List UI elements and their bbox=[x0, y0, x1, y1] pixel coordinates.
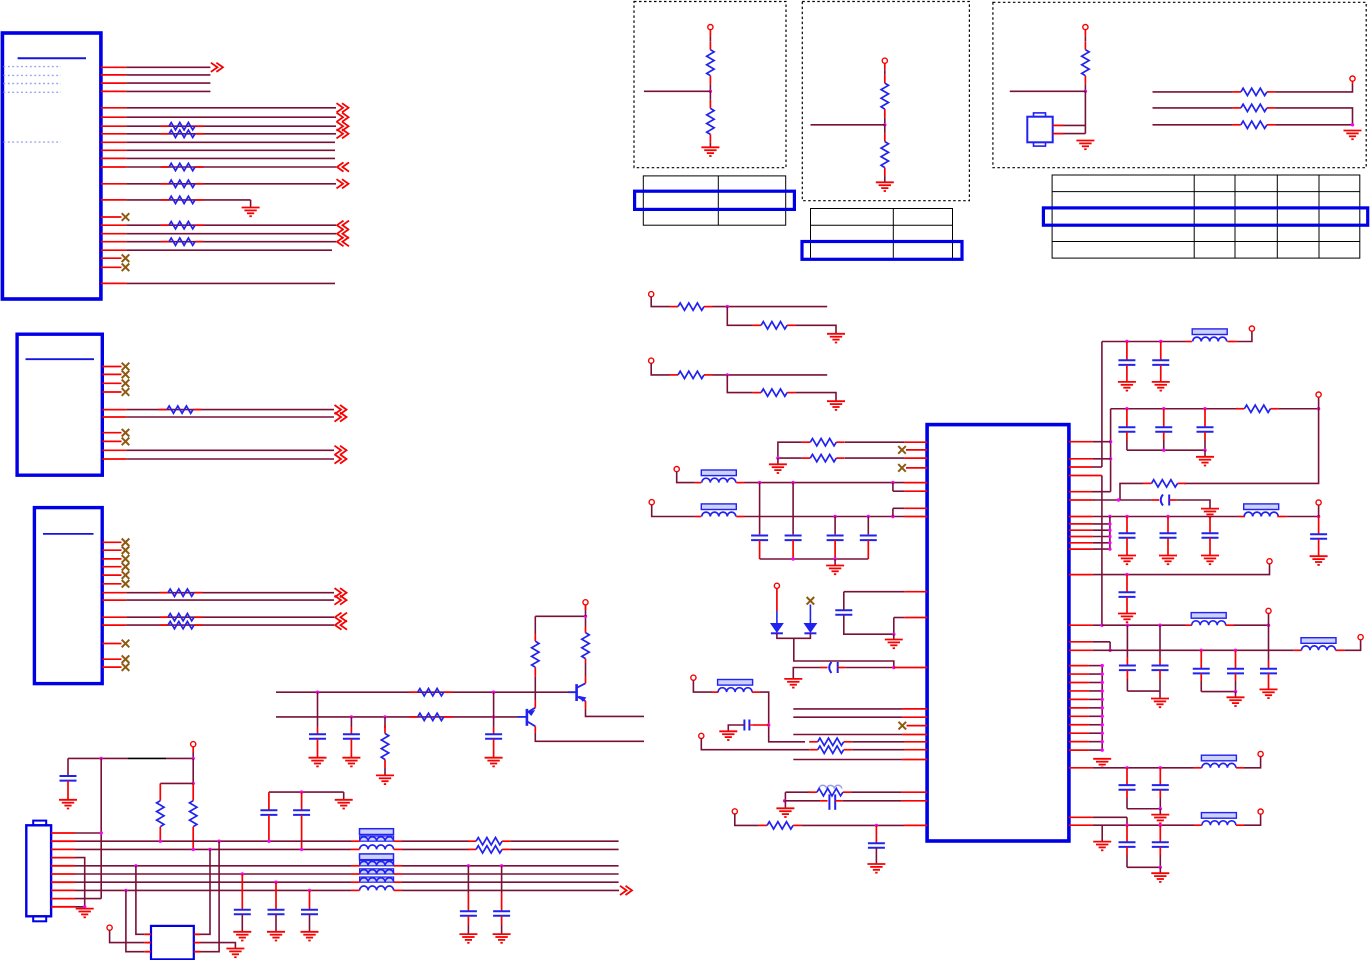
capacitor C50 bbox=[1152, 825, 1169, 847]
resistor R81 bbox=[802, 439, 845, 446]
wire R43 to ground bbox=[384, 768, 386, 775]
wire AVD2 drop bbox=[652, 505, 695, 517]
inductor L24 bbox=[1301, 638, 1336, 651]
red lead bbox=[1336, 649, 1345, 651]
wire gnd tap bbox=[1101, 825, 1103, 841]
red lead bbox=[585, 626, 587, 633]
connector block J3 bbox=[34, 508, 102, 684]
pin J4 row 2 bbox=[51, 840, 75, 842]
resistor R91 bbox=[1236, 405, 1279, 412]
junction VDD2/terminal bbox=[1317, 407, 1320, 410]
wire VDD4 rail bbox=[1102, 624, 1186, 626]
wire L24 out bbox=[1345, 640, 1361, 651]
no-connect X J2 row 2 bbox=[122, 371, 130, 379]
red lead bbox=[351, 840, 360, 842]
no-connect X J3 row 2 bbox=[122, 546, 130, 554]
wire M2 tail bbox=[796, 393, 836, 402]
wire VDD3 rail bbox=[1110, 516, 1239, 518]
pin U1 VDD7 bbox=[1069, 824, 1194, 826]
red stub bbox=[1084, 30, 1086, 37]
resistor R42 on bus B bbox=[409, 713, 452, 720]
red lead bbox=[159, 827, 161, 842]
resistor R18 bbox=[161, 180, 204, 187]
pin U1 right y475.5 bbox=[1069, 475, 1102, 477]
pin J4 row 6 bbox=[51, 873, 75, 875]
junction cluster bbox=[1108, 535, 1111, 538]
junction VDD6/C47 bbox=[1125, 766, 1128, 769]
wire AVD1 drop bbox=[677, 472, 695, 483]
pin Y1 left1 bbox=[144, 933, 151, 935]
wire U1 bus pin y708.9 bbox=[793, 708, 927, 710]
terminal PWR1 bbox=[1249, 326, 1254, 331]
dashed box region 2 bbox=[802, 2, 969, 201]
pin U1 cluster y536.5 bbox=[1069, 536, 1110, 538]
inductor L5 row5 bbox=[360, 861, 394, 866]
red lead bbox=[1226, 624, 1234, 626]
junction row2/C11 bbox=[267, 840, 270, 843]
wire J1 pin row 6 bbox=[101, 113, 349, 122]
wire T3 to R65 bbox=[1084, 37, 1086, 42]
wire C1 drop bbox=[317, 692, 319, 727]
capacitor C21 bbox=[751, 536, 768, 541]
inductor L13 bbox=[718, 680, 753, 693]
wire C23 bottom bbox=[834, 540, 836, 559]
wire R83 to pin bbox=[852, 741, 904, 743]
junction row8/vert bbox=[124, 889, 127, 892]
wire R64 to ground bbox=[884, 176, 886, 182]
junction gnd bus bbox=[1101, 689, 1104, 692]
pin U1 VDD6 bbox=[1069, 767, 1110, 769]
no-connect pin J2 row 8 bbox=[102, 440, 121, 442]
inductor L23 bbox=[1191, 613, 1226, 626]
junction rail7 bbox=[1159, 866, 1162, 869]
wire row8 bbox=[75, 889, 351, 891]
wire C16 to ground bbox=[467, 925, 469, 934]
resistor R32 bbox=[160, 614, 203, 621]
wire vert row8 to osc L3 bbox=[126, 890, 144, 951]
resistor R43 bbox=[381, 725, 388, 768]
junction cluster bbox=[1108, 522, 1111, 525]
pin U1 cluster y530.2 bbox=[1069, 529, 1110, 531]
capacitor C49 bbox=[1119, 825, 1136, 847]
wire V2 vertical bbox=[1110, 409, 1112, 492]
wire to ground bbox=[784, 801, 786, 809]
wire L12 out bbox=[745, 516, 905, 518]
wire cap C26 gnd stub bbox=[793, 668, 820, 679]
junction row6/C13 bbox=[241, 872, 244, 875]
pin U1 XFI bbox=[1069, 499, 1095, 501]
inductor L7 row7 bbox=[360, 877, 394, 882]
terminal M4 bbox=[732, 809, 737, 814]
wire C13 drop bbox=[241, 874, 243, 910]
wire VDDA rail bbox=[1095, 564, 1270, 575]
wire osc R2 to ground bbox=[201, 943, 236, 949]
wire C35 stub bbox=[1204, 432, 1206, 440]
wire V1 to pin bbox=[1092, 466, 1102, 468]
wire C11 bottom bbox=[268, 815, 270, 841]
connector J4 top tab bbox=[33, 821, 46, 826]
wire row3 end bbox=[511, 848, 619, 850]
red lead bbox=[159, 783, 161, 800]
inductor L25 bbox=[1201, 755, 1236, 768]
wire M1 tail bbox=[796, 325, 836, 334]
terminal T2 bbox=[882, 58, 887, 63]
pin U1 AVD pair1 bbox=[893, 490, 927, 492]
capacitor C43 bbox=[1152, 657, 1169, 670]
ground bbox=[335, 800, 353, 809]
pin J4 row 9 bbox=[51, 898, 75, 900]
pin U1 AVD pair2 bbox=[893, 507, 927, 509]
wire rail to ground bbox=[343, 792, 345, 800]
junction rail5 bbox=[1234, 690, 1237, 693]
capacitor C15 bbox=[301, 910, 318, 915]
resistor R17 bbox=[161, 163, 204, 170]
pin U1 gnd cluster 3 bbox=[1069, 682, 1102, 684]
ground bbox=[1227, 697, 1245, 706]
red lead bbox=[736, 516, 744, 518]
no-connect X J3 row 13 bbox=[122, 663, 130, 671]
inductor L3 row3 bbox=[360, 845, 394, 849]
pin U1 pair7a bbox=[1069, 816, 1127, 818]
ground bbox=[827, 401, 845, 410]
wire C16 drop bbox=[467, 866, 469, 893]
red stub bbox=[776, 588, 778, 611]
ground bbox=[376, 775, 394, 784]
pin U1 gnd cluster 11 bbox=[1069, 749, 1102, 751]
pin U1 RXTN bbox=[845, 441, 927, 443]
junction VDD5/C46 bbox=[1234, 649, 1237, 652]
wire L23 out bbox=[1234, 624, 1269, 626]
wire row3 bbox=[75, 848, 351, 850]
ground bbox=[1201, 509, 1219, 518]
wire node to R62 bbox=[709, 91, 711, 100]
pin U1 AGND bbox=[894, 617, 927, 619]
wire net C right bbox=[1275, 124, 1352, 126]
wire C17 drop bbox=[501, 866, 503, 893]
wire C17 lead2 bbox=[501, 916, 503, 925]
block J1 dashed row line 4 bbox=[4, 91, 62, 93]
ground bbox=[1151, 873, 1169, 882]
red lead bbox=[394, 848, 402, 850]
capacitor C2 bbox=[342, 727, 360, 766]
junction bus B / R43 bbox=[383, 715, 386, 718]
wire net C bbox=[1153, 124, 1233, 126]
ground bbox=[826, 566, 844, 575]
red lead bbox=[838, 667, 846, 669]
resistor R52 bbox=[190, 801, 197, 827]
pin U1 gnd cluster 1 bbox=[1069, 665, 1102, 667]
wire C47 tail bbox=[1126, 790, 1128, 798]
wire loop vertical bbox=[1184, 409, 1319, 484]
wire C34 stub bbox=[1163, 432, 1165, 440]
no-connect pin J2 row 1 bbox=[102, 366, 121, 368]
wire divider top rail bbox=[160, 782, 193, 784]
wire row5 right bbox=[402, 865, 619, 867]
red lead bbox=[534, 667, 536, 676]
red lead bbox=[736, 482, 744, 484]
ground bbox=[867, 864, 885, 873]
wire C12 bottom bbox=[301, 815, 303, 850]
block J1 dashed row line 2 bbox=[4, 74, 62, 76]
junction cap rail bbox=[300, 790, 303, 793]
wire C29 lead bbox=[875, 825, 877, 843]
no-connect pin J2 row 4 bbox=[102, 391, 121, 393]
connector block J1 bbox=[2, 33, 101, 299]
wire XO to pin bbox=[851, 791, 901, 793]
wire C3 drop bbox=[493, 692, 495, 727]
red lead bbox=[1294, 649, 1302, 651]
capacitor C37 bbox=[1118, 517, 1136, 565]
no-connect pin J3 row 3 bbox=[102, 558, 121, 560]
wire J2 row 9 bbox=[102, 446, 346, 455]
capacitor C36 polarized bbox=[1161, 495, 1169, 506]
wire XO net bbox=[785, 791, 810, 793]
block J1 title underline bbox=[18, 57, 86, 59]
junction VDD1/C31 bbox=[1125, 340, 1128, 343]
wire C11 lead bbox=[268, 792, 270, 810]
red lead bbox=[695, 516, 701, 518]
wire net A right bbox=[1275, 84, 1352, 92]
wire D2 feed bbox=[809, 605, 811, 624]
resistor R31 bbox=[160, 589, 203, 596]
block J1 dashed row line 5 bbox=[4, 141, 62, 143]
wire R91 out bbox=[1279, 408, 1319, 410]
wire VDD5 rail bbox=[1110, 649, 1294, 651]
resistor R67 bbox=[1232, 104, 1275, 111]
wire R62 to ground bbox=[709, 143, 711, 147]
wire L26 out bbox=[1244, 814, 1261, 825]
resistor R85 bbox=[808, 789, 851, 796]
terminal T3 bbox=[1083, 25, 1088, 30]
wire C48 tail bbox=[1159, 790, 1161, 798]
resistor R12 bbox=[161, 123, 204, 130]
wire XFI bbox=[1095, 499, 1152, 501]
wire J1 pin row 22 bbox=[101, 282, 335, 284]
wire cap rail bbox=[760, 558, 869, 560]
no-connect X J3 row 11 bbox=[122, 640, 130, 648]
capacitor C14 bbox=[268, 910, 285, 915]
capacitor C13 bbox=[234, 910, 251, 915]
wire Q2 emitter up lead bbox=[585, 676, 587, 683]
wire J1 pin row 8 bbox=[101, 129, 349, 138]
red lead bbox=[1194, 767, 1202, 769]
red lead bbox=[534, 634, 536, 642]
junction gnd bus bbox=[1101, 706, 1104, 709]
wire C46 tail bbox=[1235, 673, 1237, 681]
red lead to Q2 base bbox=[570, 691, 575, 693]
terminal VBUS bbox=[774, 583, 779, 588]
diode D1 bbox=[771, 624, 783, 634]
red pin lead bbox=[904, 824, 927, 826]
pin U1 REXT bbox=[844, 591, 927, 593]
wire C21 drop bbox=[759, 483, 761, 535]
component U2 bottom tab bbox=[1034, 142, 1046, 146]
capacitor C10 bbox=[59, 776, 77, 809]
connector block J2 bbox=[17, 334, 102, 475]
resistor R62 bbox=[707, 100, 714, 143]
junction gnd bus bbox=[1101, 681, 1104, 684]
pin J4 row 1 bbox=[51, 832, 75, 834]
pin U1 VDDA bbox=[1069, 574, 1095, 576]
red pin lead bbox=[902, 800, 927, 802]
wire Q1 emitter to resistor bbox=[534, 677, 536, 701]
wire L21 out bbox=[1237, 331, 1252, 341]
pin J4 row 5 bbox=[51, 865, 75, 867]
wire REXT down bbox=[843, 592, 845, 611]
wire C23 drop bbox=[834, 517, 836, 535]
wire J1 pin row 1 bbox=[101, 63, 223, 72]
pin U1 cluster y542.8 bbox=[1069, 542, 1110, 544]
wire T1 to R61 bbox=[709, 37, 711, 42]
red lead bbox=[695, 482, 701, 484]
diode D2 bbox=[804, 624, 816, 634]
inductor L6 row6 bbox=[360, 869, 394, 874]
wire R92 left bbox=[1120, 483, 1143, 500]
no-connect pin row 21 bbox=[101, 266, 122, 268]
red lead bbox=[351, 873, 360, 875]
junction cluster bbox=[1108, 547, 1111, 550]
wire J1 pin row 13 bbox=[101, 179, 349, 188]
wire Q2 collector out bbox=[586, 708, 645, 716]
wire C27 left bbox=[728, 725, 744, 731]
no-connect X row 21 bbox=[122, 264, 130, 272]
capacitor C12 bbox=[293, 810, 310, 815]
junction gnd bus bbox=[1101, 698, 1104, 701]
wire J1 pin row 9 bbox=[101, 141, 335, 143]
no-connect X J3 row 4 bbox=[122, 563, 130, 571]
resistor R82 bbox=[802, 454, 845, 461]
no-connect X bbox=[898, 464, 906, 472]
terminal PWR8 bbox=[1258, 809, 1263, 814]
junction V2/pin1 bbox=[1109, 440, 1112, 443]
wire J3 row 8 bbox=[102, 596, 346, 605]
wire J2 row 6 bbox=[102, 412, 346, 421]
inductor L21 bbox=[1192, 329, 1227, 342]
wire vert row3 to osc R1 bbox=[194, 849, 210, 934]
wire net A bbox=[1153, 91, 1233, 93]
ground bbox=[776, 808, 794, 817]
ground bbox=[701, 147, 719, 156]
wire T2 to R63 bbox=[884, 70, 886, 74]
capacitor C34 bbox=[1155, 409, 1172, 432]
resistor R13 bbox=[161, 130, 204, 137]
junction cluster bbox=[1108, 529, 1111, 532]
wire C21 bottom bbox=[759, 540, 761, 559]
wire cap rail 6 bbox=[1127, 808, 1160, 810]
terminal PWR7 bbox=[1258, 751, 1263, 756]
capacitor C24 bbox=[860, 536, 877, 541]
red lead bbox=[820, 667, 828, 669]
wire M2 mid bbox=[713, 374, 828, 376]
wire V2 to pin3 bbox=[1092, 491, 1111, 493]
wire rail4 gnd bbox=[1159, 691, 1161, 698]
IC U1 body bbox=[927, 425, 1069, 841]
wire J3 row 10 bbox=[102, 621, 347, 630]
no-connect pin bbox=[906, 449, 927, 451]
terminal AVD1 bbox=[674, 467, 679, 472]
red lead bbox=[1186, 341, 1192, 343]
junction VDD2/C33 bbox=[1125, 407, 1128, 410]
junction bus A / C3 bbox=[492, 691, 495, 694]
wire node2 to R64 bbox=[884, 125, 886, 133]
red lead bbox=[394, 881, 402, 883]
resistor R92 bbox=[1143, 480, 1186, 487]
junction divider bbox=[192, 782, 195, 785]
wire C23 lead bbox=[834, 534, 836, 535]
wire M1 mid bbox=[713, 306, 828, 308]
capacitor C35 bbox=[1197, 409, 1214, 432]
no-connect X bbox=[899, 722, 907, 730]
wire C43 tail bbox=[1159, 670, 1161, 679]
junction gnd bus bbox=[1101, 723, 1104, 726]
wire C10 drop bbox=[67, 758, 69, 776]
wire R82 left bbox=[778, 457, 802, 459]
wire rail5 gnd bbox=[1235, 692, 1237, 698]
wire AVD3 drop bbox=[693, 680, 712, 692]
junction V4/wire4 bbox=[1100, 624, 1103, 627]
capacitor C42 bbox=[1119, 657, 1136, 670]
component U2 body bbox=[1027, 117, 1052, 143]
red lead bbox=[192, 783, 194, 800]
resistor R54 bbox=[468, 846, 511, 853]
wire V5 vertical bbox=[1109, 517, 1111, 550]
wire J1 pin row 10 bbox=[101, 149, 335, 151]
pin U1 gnd cluster 9 bbox=[1069, 732, 1102, 734]
dashed box region 3 bbox=[993, 2, 1366, 167]
wire rail6 gnd bbox=[1159, 809, 1161, 815]
ground bbox=[1151, 699, 1169, 708]
wire AGND down bbox=[893, 618, 895, 635]
wire to ground bbox=[893, 634, 895, 639]
junction row8/C15 bbox=[308, 889, 311, 892]
terminal PWR4 bbox=[1267, 559, 1272, 564]
red lead bbox=[192, 827, 194, 850]
component U2 top tab bbox=[1034, 113, 1046, 117]
wire L22 out bbox=[1286, 516, 1318, 518]
terminal M1 bbox=[649, 292, 654, 297]
no-connect X J2 row 3 bbox=[122, 380, 130, 388]
pin J4 row 4 bbox=[51, 857, 75, 859]
wire Q2 emitter wire bbox=[585, 663, 587, 676]
pin U1 right y441.7 bbox=[1069, 441, 1111, 443]
wire M4 drop bbox=[735, 814, 759, 825]
wire row9 bbox=[75, 898, 101, 900]
capacitor C40 bbox=[1310, 517, 1328, 565]
capacitor C23 bbox=[827, 536, 844, 541]
red lead bbox=[820, 800, 828, 802]
resistor R70a bbox=[670, 303, 713, 310]
wire rail to ground bbox=[834, 559, 836, 566]
inductor L12 bbox=[701, 504, 736, 517]
junction row2/vert bbox=[217, 840, 220, 843]
wire J1 pin row 18 bbox=[101, 237, 349, 246]
wire C45 tail bbox=[1200, 673, 1202, 681]
pin U2 right2 bbox=[1053, 133, 1063, 135]
wire U1 bus pin y734.5 bbox=[793, 734, 927, 736]
junction VDD3/pin bbox=[1108, 515, 1111, 518]
no-connect pin J3 row 11 bbox=[102, 643, 121, 645]
no-connect X J3 row 3 bbox=[122, 555, 130, 563]
junction L13 node/C27 bbox=[767, 723, 770, 726]
red pin lead bbox=[904, 749, 927, 751]
wire M3 drop bbox=[701, 739, 809, 750]
red pin lead bbox=[1069, 491, 1092, 493]
wire cap rail 7 bbox=[1127, 866, 1160, 868]
wire C24 bottom bbox=[867, 540, 869, 559]
ground bbox=[1093, 842, 1111, 851]
junction bus A / C1 bbox=[316, 691, 319, 694]
pin Y1 left3 bbox=[144, 951, 151, 953]
